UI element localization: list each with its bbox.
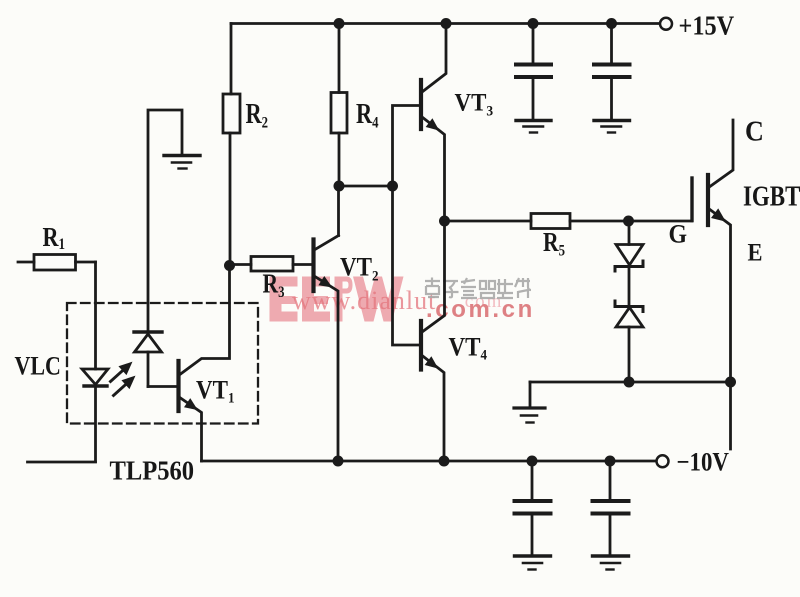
transistor VT1 <box>179 266 230 462</box>
label VT3 <box>455 89 494 120</box>
ground cap C4 <box>593 556 629 570</box>
label R2 <box>246 99 269 132</box>
wire output to R5 <box>445 220 532 223</box>
wire base node <box>339 185 393 188</box>
capacitor C4 <box>593 461 629 554</box>
label E <box>748 239 763 266</box>
ground cap C1 <box>516 121 551 133</box>
wire +15V top rail <box>231 22 660 25</box>
label R3 <box>263 270 285 302</box>
wire bottom-left input <box>28 461 96 464</box>
junction dot IGBT emitter <box>725 377 736 388</box>
label VT2 <box>340 253 379 285</box>
transistor VT4 <box>421 221 445 461</box>
junction dot output node <box>439 216 450 227</box>
label VT1 <box>196 376 235 407</box>
ground clamp rail <box>514 382 545 423</box>
junction dot VT4 emitter rail <box>439 456 450 467</box>
transistor VT2 <box>314 186 339 461</box>
junction dot zener bottom <box>624 377 635 388</box>
svg-text:.com.cn: .com.cn <box>426 296 535 323</box>
svg-text:−10V: −10V <box>677 448 730 477</box>
wire diode to VT1 base <box>148 385 177 388</box>
dashed box TLP560 <box>67 303 258 424</box>
LED of optocoupler <box>82 262 108 462</box>
junction dot cap C3 rail <box>527 456 538 467</box>
label G <box>669 220 688 248</box>
IGBT Q1 <box>692 120 733 449</box>
junction dot cap C2 rail <box>606 18 617 29</box>
capacitor C2 <box>594 24 630 120</box>
label VT4 <box>449 333 488 364</box>
ground cap C2 <box>594 121 630 133</box>
watermark EEPW logo letter E2 <box>302 277 330 322</box>
wire gate node to IGBT gate <box>629 220 693 223</box>
svg-text:+15V: +15V <box>679 10 735 40</box>
terminal +15V <box>660 18 672 30</box>
resistor R4 <box>331 24 347 187</box>
watermark EEPW logo letter P <box>335 277 353 322</box>
junction dot base riser <box>387 181 398 192</box>
junction dot R4 bottom / VT2 collector <box>334 181 345 192</box>
WATERMARK <box>270 277 535 324</box>
wire VT4 base riser <box>393 186 420 345</box>
capacitor C1 <box>516 24 551 120</box>
svg-text:IGBT: IGBT <box>743 180 800 212</box>
wire emitter clamp rail <box>530 381 731 384</box>
zener diode VS2 <box>615 301 643 382</box>
label VLC <box>15 352 61 381</box>
terminal -10V <box>657 455 669 467</box>
label TLP560 <box>110 455 195 485</box>
label R1 <box>43 223 66 253</box>
node A junction dot (R2/R3/VT1 collector) <box>224 260 235 271</box>
label R5 <box>543 228 565 260</box>
resistor R5 <box>531 214 629 229</box>
zener diode VS1 <box>615 221 643 305</box>
diode of optocoupler <box>134 110 182 387</box>
svg-text:C: C <box>745 114 764 147</box>
watermark .com.cn <box>426 296 535 323</box>
ground opto diode <box>164 156 200 169</box>
label R4 <box>356 99 379 132</box>
junction dot VT3 collector rail <box>441 18 452 29</box>
watermark EEPW logo letter E <box>270 277 298 322</box>
junction dot cap C1 rail <box>528 18 539 29</box>
watermark text www.dianlut <box>292 286 436 315</box>
ground cap C3 <box>515 556 551 570</box>
wire VT3 base riser <box>393 106 420 187</box>
svg-text:G: G <box>669 220 688 248</box>
watermark EEPW logo letter W <box>353 277 404 322</box>
wire bottom -10V rail <box>202 460 657 463</box>
junction dot R4 top rail <box>334 18 345 29</box>
junction dot VT2 emitter rail <box>333 456 344 467</box>
svg-text:VLC: VLC <box>15 352 61 381</box>
junction dot cap C4 rail <box>605 456 616 467</box>
resistor R2 <box>223 24 240 266</box>
light arrows <box>111 357 140 395</box>
junction dot gate node <box>623 216 634 227</box>
watermark faint .com <box>458 291 503 312</box>
svg-text:TLP560: TLP560 <box>110 455 195 485</box>
resistor R1 <box>18 255 96 271</box>
capacitor C3 <box>515 461 551 554</box>
resistor R3 <box>230 257 314 272</box>
watermark CJK chars <box>425 278 531 299</box>
label IGBT <box>743 180 800 212</box>
label -10V <box>677 448 730 477</box>
label +15V <box>679 10 735 40</box>
label C <box>745 114 764 147</box>
transistor VT3 <box>421 24 446 222</box>
svg-text:E: E <box>748 239 763 266</box>
